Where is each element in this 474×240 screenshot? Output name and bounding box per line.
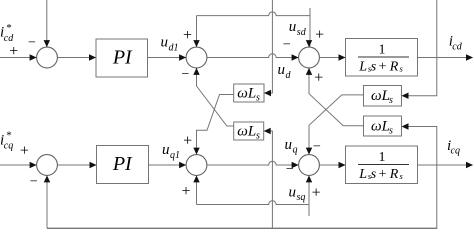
wire: i_cd feedback riser into S1 top [46, 0, 48, 47]
wire: i_cd feedback riser and tap to U3 [403, 0, 437, 96]
block PI1 [96, 39, 148, 77]
label u_q1 [162, 142, 180, 161]
arrowhead into S3 bottom [306, 68, 312, 75]
summing junction S3 [299, 47, 320, 68]
label u_q [285, 137, 298, 156]
arrowhead into S4 bottom [44, 175, 50, 182]
sign + S6 bottom [312, 184, 321, 201]
svg-text:ωL: ωL [371, 88, 390, 104]
svg-text:s: s [371, 167, 377, 182]
wire: i_cd tap into U1 with corner [265, 0, 272, 93]
sign + S5 top [183, 133, 192, 150]
sign - S6 left [286, 162, 294, 177]
svg-text:R: R [389, 167, 399, 182]
svg-text:ωL: ωL [371, 119, 390, 135]
wire: U1 output to S5 top (cross) [197, 95, 234, 154]
svg-text:+: + [183, 27, 192, 44]
wire: d-axis reference input [0, 57, 36, 59]
summing junction S6 [299, 155, 320, 176]
svg-text:+: + [315, 26, 324, 43]
svg-text:sq: sq [297, 192, 306, 203]
arrowhead into G2 [339, 162, 346, 168]
label i*_cd [0, 22, 14, 44]
svg-text:1: 1 [379, 150, 386, 165]
svg-text:L: L [358, 59, 367, 74]
wire: S4 to PI2 [57, 164, 96, 166]
wire: S1 to PI1 [57, 57, 95, 59]
wire: i_cq tap into U2 [265, 131, 273, 228]
block U2 omega-Ls lower middle [234, 122, 264, 140]
arrowhead into S4 left [30, 162, 37, 168]
svg-text:−: − [28, 35, 36, 50]
svg-text:u: u [289, 19, 297, 35]
arrowhead i_cd output [466, 54, 473, 60]
wire: i_cq tap to U4 [403, 127, 437, 229]
arrowhead into U3 [402, 93, 409, 99]
svg-text:−: − [30, 175, 38, 190]
summing junction S1 [37, 47, 58, 68]
net u_sd bus with hop over i_cd tap [197, 8, 311, 47]
svg-text:+: + [314, 69, 323, 86]
label u_d1 [161, 34, 179, 53]
sign - S1 top [28, 35, 36, 50]
sign + S2 top [183, 27, 192, 44]
svg-text:+: + [379, 59, 387, 74]
wire: U2 output to S2 bottom (cross) [197, 69, 234, 127]
svg-text:cq: cq [4, 141, 13, 152]
sign + S1 left [9, 43, 18, 60]
wire: S3 to plant G1 [319, 57, 345, 59]
wire: PI1 to S2 [148, 57, 186, 59]
arrowhead into PI2 [90, 162, 97, 168]
svg-text:+: + [181, 183, 190, 200]
text U4 omega-Ls [371, 119, 393, 137]
svg-text:q: q [293, 145, 298, 156]
sign - S2 bottom [182, 67, 190, 82]
block G2 (1/(Ls s+Rs)) [346, 146, 418, 184]
wire: S2 to S3 (u_d) with hop [207, 54, 298, 58]
svg-text:u: u [289, 184, 297, 200]
wire: U4 output to S3 bottom (cross) [309, 69, 364, 126]
svg-text:u: u [162, 142, 170, 158]
sign + S5 bottom [181, 183, 190, 200]
svg-text:L: L [358, 167, 367, 182]
arrowhead into S5 left [179, 162, 186, 168]
arrowhead into S1 left [30, 54, 37, 60]
arrowhead into S5 top [193, 148, 199, 155]
arrowhead into S5 bottom [193, 175, 199, 182]
arrowhead into S3 left [292, 54, 299, 60]
svg-text:s: s [256, 130, 260, 141]
svg-text:s: s [256, 92, 260, 103]
svg-text:PI: PI [112, 153, 133, 175]
label u_sq [289, 184, 306, 203]
text G2 fraction [358, 150, 409, 182]
svg-text:+: + [312, 184, 321, 201]
arrowhead i_cq output [466, 162, 473, 168]
svg-text:u: u [285, 137, 293, 153]
svg-text:cd: cd [452, 42, 462, 53]
arrowhead into S2 bottom [193, 68, 199, 75]
svg-text:+: + [9, 43, 18, 60]
svg-text:d1: d1 [169, 42, 179, 53]
label u_sd [289, 19, 307, 38]
arrowhead into U1 [264, 90, 271, 96]
svg-text:s: s [389, 126, 393, 137]
text PI2 [112, 153, 133, 175]
net u_sq bus with hop [197, 177, 310, 217]
svg-text:−: − [283, 38, 291, 53]
svg-text:+: + [20, 142, 29, 159]
svg-text:ωL: ωL [237, 85, 256, 101]
svg-text:−: − [286, 162, 294, 177]
wire: S5 to S6 (u_q) with hop [207, 161, 298, 165]
text U3 omega-Ls [371, 88, 393, 106]
svg-text:d: d [286, 70, 292, 81]
arrowhead into S1 top [44, 40, 50, 47]
label i_cd output [449, 34, 463, 53]
block G1 (1/(Ls s+Rs)) [346, 39, 418, 77]
arrowhead into S6 bottom [306, 175, 312, 182]
sign - S3 left [283, 38, 291, 53]
block U3 omega-Ls upper right [364, 86, 402, 107]
wire: q-axis reference input [0, 164, 36, 166]
wire: U3 output to S6 top (cross) [309, 95, 364, 154]
sign - S6 top [313, 140, 321, 155]
svg-text:sd: sd [297, 27, 307, 38]
sign + S4 left [20, 142, 29, 159]
arrowhead into S2 left [179, 54, 186, 60]
summing junction S5 [186, 155, 207, 176]
arrowhead into S6 top [306, 148, 312, 155]
text PI1 [112, 46, 133, 68]
arrowhead into U4 [402, 123, 409, 129]
block PI2 [97, 146, 149, 184]
svg-text:+: + [379, 167, 387, 182]
wire: G1 output i_cd [418, 57, 473, 59]
wire: PI2 to S5 [149, 164, 186, 166]
block U4 omega-Ls lower right [364, 116, 402, 136]
svg-text:ωL: ωL [237, 123, 256, 139]
svg-text:R: R [389, 59, 399, 74]
svg-text:PI: PI [112, 46, 133, 68]
label u_d [278, 62, 292, 81]
text G1 fraction [358, 43, 409, 75]
svg-text:+: + [183, 133, 192, 150]
text U2 omega-Ls [237, 123, 260, 141]
sign - S4 bottom [30, 175, 38, 190]
svg-text:1: 1 [379, 43, 386, 58]
svg-text:−: − [182, 67, 190, 82]
svg-text:u: u [161, 34, 169, 50]
wire: S6 to plant G2 [319, 164, 345, 166]
arrowhead into U2 [264, 128, 271, 134]
text U1 omega-Ls [237, 85, 260, 103]
wire: bottom feedback bus [47, 227, 437, 229]
svg-text:u: u [278, 62, 286, 78]
svg-text:cq: cq [451, 145, 460, 156]
block U1 omega-Ls upper middle [234, 84, 264, 102]
label i_cq output [447, 138, 460, 157]
summing junction S2 [186, 47, 207, 68]
svg-text:q1: q1 [170, 150, 180, 161]
arrowhead into S2 top [193, 40, 199, 47]
svg-text:s: s [371, 59, 377, 74]
arrowhead into PI1 [89, 54, 96, 60]
arrowhead into S6 left [292, 162, 299, 168]
arrowhead into G1 [339, 54, 346, 60]
arrowhead into S3 top [306, 40, 312, 47]
sign + S3 bottom [314, 69, 323, 86]
svg-text:s: s [389, 95, 393, 106]
svg-text:−: − [313, 140, 321, 155]
label i*_cq [0, 130, 13, 152]
sign + S3 top [315, 26, 324, 43]
wire: riser into S4 bottom [46, 177, 48, 229]
summing junction S4 [37, 155, 58, 176]
wire: G2 output i_cq [418, 164, 473, 166]
